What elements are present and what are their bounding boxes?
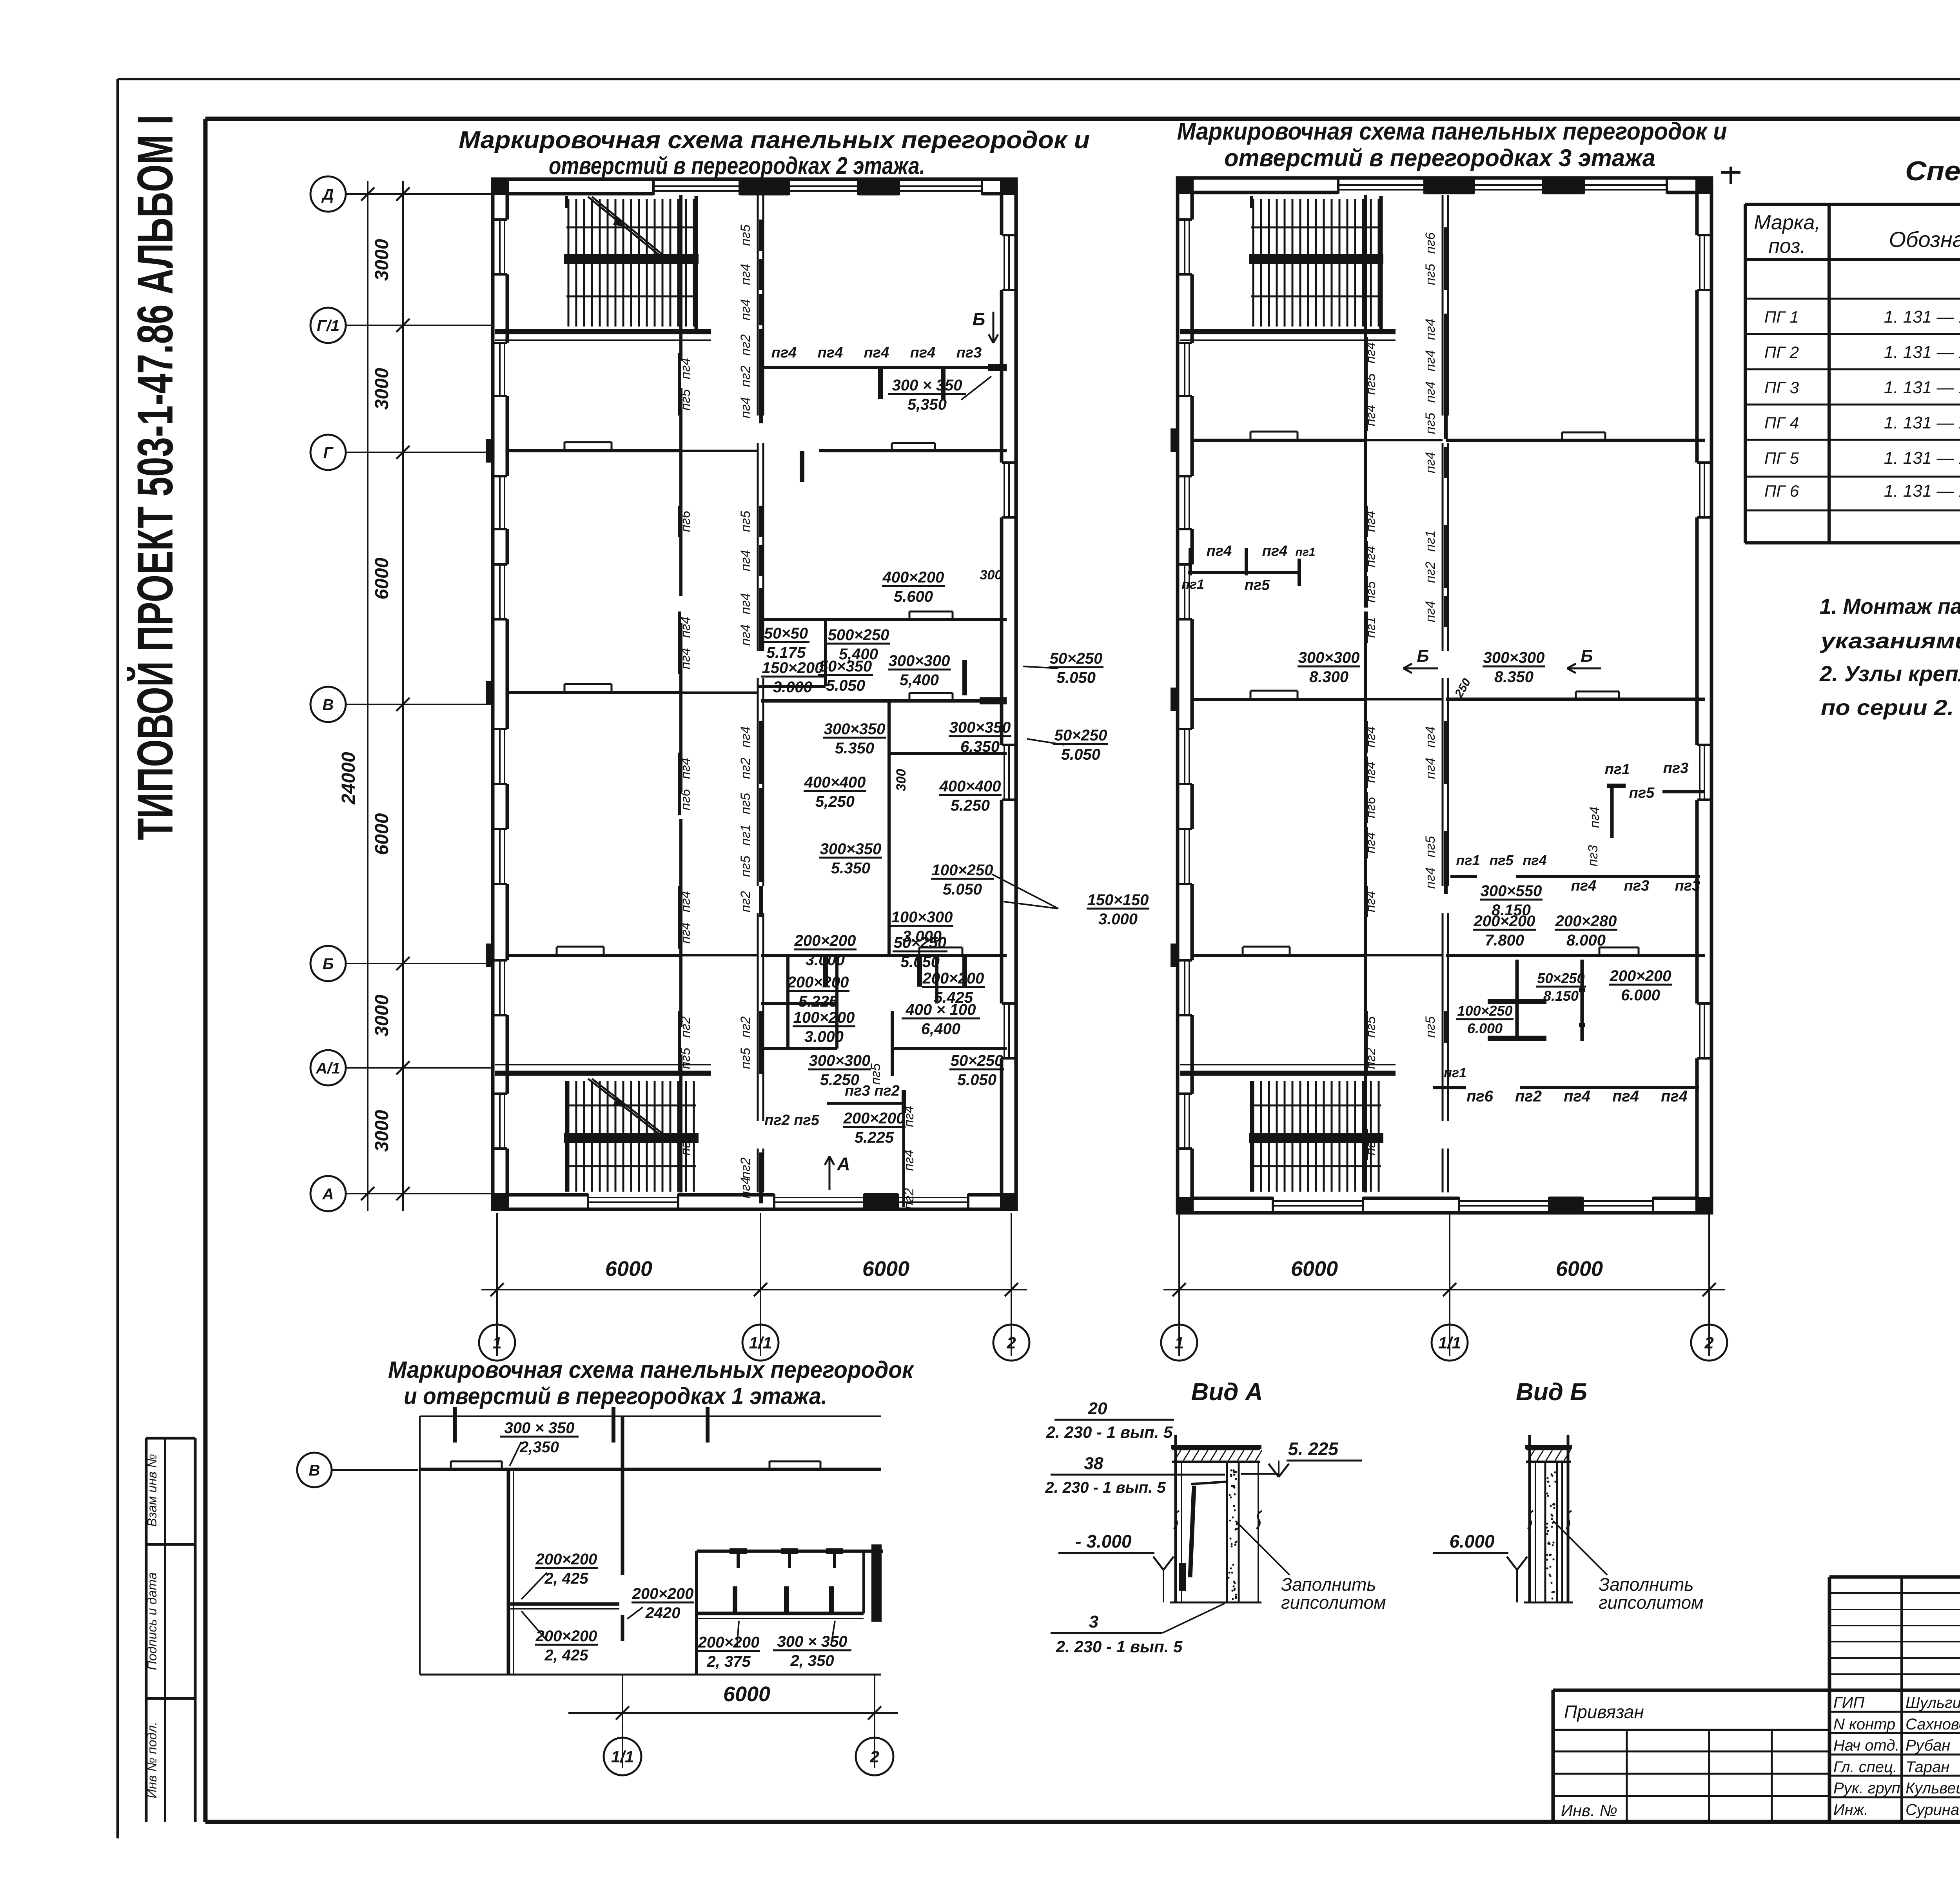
svg-text:пг2: пг2 xyxy=(738,758,753,779)
svg-text:ПГ 6: ПГ 6 xyxy=(1764,482,1799,500)
svg-text:Инв. №: Инв. № xyxy=(1561,1801,1617,1820)
svg-text:6000: 6000 xyxy=(862,1257,909,1281)
svg-text:гипсолитом: гипсолитом xyxy=(1281,1592,1386,1613)
svg-text:2: 2 xyxy=(1006,1334,1016,1352)
svg-text:Спецификация панелей перегор: Спецификация панелей перегородок xyxy=(1905,156,1960,186)
svg-text:пг4: пг4 xyxy=(738,264,753,285)
svg-text:8.150: 8.150 xyxy=(1543,988,1579,1004)
svg-text:5.050: 5.050 xyxy=(1056,669,1096,686)
svg-text:пг4: пг4 xyxy=(738,1177,753,1198)
svg-text:100×250: 100×250 xyxy=(932,862,993,879)
svg-text:1. 131 — 15 вып.2: 1. 131 — 15 вып.2 xyxy=(1884,307,1960,327)
svg-text:Инж.: Инж. xyxy=(1833,1801,1868,1818)
svg-text:2, 350: 2, 350 xyxy=(790,1652,834,1669)
svg-text:А/1: А/1 xyxy=(316,1060,340,1077)
svg-text:300×550: 300×550 xyxy=(1481,882,1542,900)
svg-text:пг4: пг4 xyxy=(1363,762,1378,783)
svg-text:300×300: 300×300 xyxy=(1483,649,1545,666)
svg-text:Подпись и дата: Подпись и дата xyxy=(145,1572,159,1670)
svg-text:6000: 6000 xyxy=(372,557,392,599)
svg-text:100×250: 100×250 xyxy=(1457,1003,1512,1019)
svg-text:пг3: пг3 xyxy=(1586,845,1601,866)
svg-text:пг5: пг5 xyxy=(1363,1016,1378,1038)
svg-text:5.050: 5.050 xyxy=(943,881,982,898)
svg-text:пг4: пг4 xyxy=(1423,350,1438,371)
svg-text:50×350: 50×350 xyxy=(819,658,872,675)
svg-text:пг1: пг1 xyxy=(1456,852,1480,868)
svg-text:50×250: 50×250 xyxy=(1050,650,1103,667)
svg-text:Г: Г xyxy=(323,444,334,461)
svg-text:400×400: 400×400 xyxy=(804,774,866,791)
svg-text:3000: 3000 xyxy=(372,994,392,1036)
svg-text:пг2: пг2 xyxy=(738,1158,753,1179)
svg-text:6000: 6000 xyxy=(605,1257,652,1281)
svg-text:6000: 6000 xyxy=(1291,1257,1338,1281)
svg-text:пг6: пг6 xyxy=(1423,232,1438,254)
svg-text:пг3: пг3 xyxy=(1624,878,1650,894)
svg-text:пг4: пг4 xyxy=(738,550,753,571)
svg-text:2,350: 2,350 xyxy=(519,1439,559,1456)
svg-text:5.600: 5.600 xyxy=(894,588,933,605)
svg-text:ТИПОВОЙ ПРОЕКТ 503-1-47.86 АЛЬ: ТИПОВОЙ ПРОЕКТ 503-1-47.86 АЛЬБОМ I xyxy=(127,115,183,840)
svg-text:пг4: пг4 xyxy=(1423,452,1438,473)
svg-text:3000: 3000 xyxy=(372,1110,392,1152)
svg-text:1/1: 1/1 xyxy=(1438,1334,1461,1352)
svg-text:1. 131 — 15 вып.2: 1. 131 — 15 вып.2 xyxy=(1884,481,1960,501)
svg-text:300: 300 xyxy=(894,769,909,791)
svg-text:Сурина.: Сурина. xyxy=(1906,1801,1960,1818)
svg-text:200×200: 200×200 xyxy=(535,1551,597,1568)
svg-text:300×300: 300×300 xyxy=(1298,649,1360,666)
svg-text:пг3: пг3 xyxy=(956,345,982,361)
svg-text:Привязан: Привязан xyxy=(1564,1702,1644,1722)
svg-text:пг5: пг5 xyxy=(1423,413,1438,434)
svg-text:300 × 350: 300 × 350 xyxy=(892,377,962,394)
svg-text:8.350: 8.350 xyxy=(1494,668,1534,686)
svg-text:100×200: 100×200 xyxy=(793,1009,855,1026)
svg-text:200×280: 200×280 xyxy=(1555,913,1617,930)
svg-text:Сахновская: Сахновская xyxy=(1906,1716,1960,1733)
svg-text:пг4: пг4 xyxy=(738,624,753,646)
svg-text:пг4: пг4 xyxy=(678,617,693,638)
svg-text:5.250: 5.250 xyxy=(951,797,990,814)
svg-text:пг4: пг4 xyxy=(678,922,693,944)
svg-text:300 × 350: 300 × 350 xyxy=(777,1633,847,1650)
svg-text:А: А xyxy=(837,1154,850,1174)
svg-text:Б: Б xyxy=(1417,646,1429,666)
svg-text:1. 131 — 15 вып.2: 1. 131 — 15 вып.2 xyxy=(1884,343,1960,362)
svg-text:пг4: пг4 xyxy=(1262,543,1288,559)
svg-text:1/1: 1/1 xyxy=(611,1747,634,1766)
svg-text:пг5: пг5 xyxy=(1245,577,1270,593)
svg-text:пг6: пг6 xyxy=(678,789,693,810)
svg-text:пг4: пг4 xyxy=(1423,867,1438,889)
svg-text:5.225: 5.225 xyxy=(855,1129,894,1146)
svg-text:пг3 пг2: пг3 пг2 xyxy=(845,1083,900,1099)
svg-text:Гл. спец.: Гл. спец. xyxy=(1833,1758,1897,1776)
svg-text:2. 230 - 1 вып. 5: 2. 230 - 1 вып. 5 xyxy=(1056,1637,1183,1656)
svg-text:5.050: 5.050 xyxy=(826,677,865,694)
svg-text:200×200: 200×200 xyxy=(787,974,849,991)
svg-text:пг4: пг4 xyxy=(1363,546,1378,567)
svg-text:пг3: пг3 xyxy=(1363,1134,1378,1155)
svg-text:3000: 3000 xyxy=(372,239,392,281)
svg-text:пг4: пг4 xyxy=(1363,891,1378,912)
svg-text:5.225: 5.225 xyxy=(799,993,838,1010)
svg-text:пг3: пг3 xyxy=(1663,760,1689,777)
svg-text:1/1: 1/1 xyxy=(749,1334,772,1352)
svg-text:пг5: пг5 xyxy=(738,511,753,532)
svg-text:Б: Б xyxy=(973,309,985,329)
svg-text:Обозначение: Обозначение xyxy=(1889,227,1960,252)
svg-text:300×300: 300×300 xyxy=(809,1052,871,1069)
svg-text:1. 131 — 15 вып.2: 1. 131 — 15 вып.2 xyxy=(1884,448,1960,468)
svg-text:8.000: 8.000 xyxy=(1566,932,1606,949)
svg-text:3.000: 3.000 xyxy=(773,679,812,696)
svg-text:ПГ 2: ПГ 2 xyxy=(1764,343,1799,361)
svg-text:5.350: 5.350 xyxy=(831,860,870,877)
svg-text:5. 225: 5. 225 xyxy=(1288,1439,1339,1459)
svg-text:пг4: пг4 xyxy=(1207,543,1232,559)
svg-text:Марка,: Марка, xyxy=(1754,211,1820,234)
svg-text:пг4: пг4 xyxy=(1661,1088,1688,1105)
svg-text:1. 131 — 15 вып.2: 1. 131 — 15 вып.2 xyxy=(1884,378,1960,397)
svg-text:пг5: пг5 xyxy=(1423,264,1438,285)
svg-text:пг5: пг5 xyxy=(1423,1016,1438,1038)
svg-text:300×350: 300×350 xyxy=(949,719,1011,736)
svg-text:пг4: пг4 xyxy=(678,648,693,669)
svg-text:50×50: 50×50 xyxy=(764,625,808,642)
svg-text:пг2: пг2 xyxy=(902,1188,916,1209)
svg-text:3.000: 3.000 xyxy=(1098,911,1138,928)
svg-text:пг4: пг4 xyxy=(771,345,797,361)
svg-text:пг2: пг2 xyxy=(1515,1088,1542,1105)
svg-text:200×200: 200×200 xyxy=(698,1634,760,1651)
svg-text:Рубан: Рубан xyxy=(1906,1737,1950,1754)
svg-text:2, 425: 2, 425 xyxy=(544,1570,588,1587)
svg-text:2420: 2420 xyxy=(645,1604,681,1622)
svg-text:пг5: пг5 xyxy=(1423,836,1438,857)
svg-text:8.300: 8.300 xyxy=(1309,668,1348,686)
svg-text:ПГ 4: ПГ 4 xyxy=(1764,414,1799,432)
svg-text:пг4: пг4 xyxy=(1612,1088,1639,1105)
svg-text:3.000: 3.000 xyxy=(806,951,845,969)
svg-text:300×350: 300×350 xyxy=(824,720,886,738)
svg-text:пг1: пг1 xyxy=(1181,577,1204,592)
svg-text:5.050: 5.050 xyxy=(900,953,940,971)
svg-text:пг4: пг4 xyxy=(1363,342,1378,363)
svg-text:Инв № подл.: Инв № подл. xyxy=(145,1722,159,1798)
svg-text:пг4: пг4 xyxy=(1363,405,1378,426)
svg-text:6000: 6000 xyxy=(723,1682,770,1706)
svg-text:и отверстий в перегородках: и отверстий в перегородках 1 этажа. xyxy=(404,1383,827,1409)
svg-text:пг4: пг4 xyxy=(902,1106,916,1127)
svg-text:поз.: поз. xyxy=(1768,235,1806,258)
svg-text:пг4: пг4 xyxy=(1423,758,1438,779)
svg-text:300 × 350: 300 × 350 xyxy=(504,1419,574,1437)
svg-text:пг4: пг4 xyxy=(864,345,889,361)
svg-text:2: 2 xyxy=(1704,1334,1713,1352)
svg-text:Маркировочная схема панельны: Маркировочная схема панельных перегородо… xyxy=(459,127,1090,154)
svg-text:пг4: пг4 xyxy=(738,397,753,418)
svg-text:200×200: 200×200 xyxy=(843,1110,905,1127)
svg-text:пг2 пг5: пг2 пг5 xyxy=(764,1112,820,1129)
svg-text:150×200: 150×200 xyxy=(762,659,824,677)
svg-text:отверстий в перегородках 2: отверстий в перегородках 2 этажа. xyxy=(549,152,925,180)
svg-text:6.000: 6.000 xyxy=(1621,987,1660,1004)
svg-text:Маркировочная схема панель: Маркировочная схема панельных перегородо… xyxy=(388,1357,914,1383)
svg-text:пг5: пг5 xyxy=(868,1063,883,1085)
svg-text:пг4: пг4 xyxy=(1423,381,1438,403)
svg-text:5.350: 5.350 xyxy=(835,740,874,757)
svg-text:пг4: пг4 xyxy=(1571,878,1597,894)
svg-text:пг6: пг6 xyxy=(1466,1088,1494,1105)
svg-text:пг6: пг6 xyxy=(678,511,693,532)
svg-text:100×300: 100×300 xyxy=(891,909,953,926)
svg-text:300×300: 300×300 xyxy=(889,652,950,670)
svg-text:2. Узлы крепления перегородо: 2. Узлы крепления перегородок к конструк… xyxy=(1819,661,1960,686)
svg-text:50×250: 50×250 xyxy=(894,934,947,951)
svg-text:6.000: 6.000 xyxy=(1449,1531,1495,1551)
svg-text:ПГ 5: ПГ 5 xyxy=(1764,449,1799,467)
svg-text:2. 230 - 1 вып. 5: 2. 230 - 1 вып. 5 xyxy=(1046,1423,1173,1441)
svg-text:пг4: пг4 xyxy=(1523,852,1546,868)
svg-text:200×200: 200×200 xyxy=(535,1628,597,1645)
svg-text:пг5: пг5 xyxy=(738,856,753,877)
svg-text:2, 375: 2, 375 xyxy=(706,1653,751,1670)
svg-text:пг2: пг2 xyxy=(738,366,753,387)
svg-text:200×200: 200×200 xyxy=(794,932,856,949)
svg-text:24000: 24000 xyxy=(338,752,359,805)
svg-text:5,350: 5,350 xyxy=(907,396,947,413)
svg-text:2. 230 - 1 вып. 5: 2. 230 - 1 вып. 5 xyxy=(1045,1479,1166,1496)
svg-text:2, 425: 2, 425 xyxy=(544,1647,588,1664)
svg-text:6.000: 6.000 xyxy=(1467,1020,1503,1036)
svg-text:А: А xyxy=(322,1185,334,1203)
svg-text:3000: 3000 xyxy=(372,368,392,410)
svg-text:5,400: 5,400 xyxy=(900,671,939,689)
svg-text:150×150: 150×150 xyxy=(1087,891,1149,909)
svg-text:пг6: пг6 xyxy=(1363,797,1378,818)
svg-text:Вид А: Вид А xyxy=(1191,1379,1263,1406)
svg-text:пг4: пг4 xyxy=(1363,832,1378,853)
svg-text:пг5: пг5 xyxy=(738,225,753,246)
svg-text:пг2: пг2 xyxy=(1423,562,1438,583)
svg-text:ПГ 1: ПГ 1 xyxy=(1764,308,1799,326)
svg-text:6000: 6000 xyxy=(372,813,392,855)
svg-text:Д: Д xyxy=(321,186,334,203)
svg-text:Заполнить: Заполнить xyxy=(1599,1574,1694,1595)
svg-text:пг2: пг2 xyxy=(1363,1048,1378,1069)
svg-text:Г/1: Г/1 xyxy=(317,317,339,334)
svg-text:пг4: пг4 xyxy=(1423,319,1438,340)
svg-text:пг1: пг1 xyxy=(1444,1065,1466,1080)
svg-text:Б: Б xyxy=(1581,646,1593,666)
svg-text:200×200: 200×200 xyxy=(1474,913,1535,930)
svg-text:пг3: пг3 xyxy=(1675,878,1700,894)
svg-text:200×200: 200×200 xyxy=(922,970,984,987)
svg-text:пг4: пг4 xyxy=(678,358,693,379)
svg-text:Нач отд.: Нач отд. xyxy=(1833,1737,1900,1754)
svg-text:пг5: пг5 xyxy=(1363,581,1378,602)
svg-text:отверстий в перегородках 3: отверстий в перегородках 3 этажа xyxy=(1224,145,1655,172)
svg-text:400×400: 400×400 xyxy=(939,778,1001,795)
svg-text:указаниями серии 1. 131 -: указаниями серии 1. 131 - 15 вып. 2. xyxy=(1820,628,1960,653)
svg-text:пг2: пг2 xyxy=(678,1016,693,1038)
svg-text:3: 3 xyxy=(1089,1612,1098,1631)
svg-text:1: 1 xyxy=(1174,1334,1183,1352)
svg-text:пг5: пг5 xyxy=(678,389,693,410)
svg-text:В: В xyxy=(323,696,334,713)
svg-text:пг4: пг4 xyxy=(738,593,753,614)
svg-text:5.050: 5.050 xyxy=(957,1071,996,1089)
svg-text:пг2: пг2 xyxy=(738,1016,753,1038)
svg-text:500×250: 500×250 xyxy=(828,626,889,644)
svg-text:Маркировочная схема панельны: Маркировочная схема панельных перегородо… xyxy=(1177,118,1727,145)
svg-text:1. Монтаж панелей производ: 1. Монтаж панелей производить в соответс… xyxy=(1820,594,1960,619)
svg-text:пг4: пг4 xyxy=(738,299,753,320)
svg-text:пг1: пг1 xyxy=(738,824,753,846)
svg-text:пг4: пг4 xyxy=(818,345,843,361)
svg-text:200×200: 200×200 xyxy=(1610,967,1671,985)
svg-text:ГИП: ГИП xyxy=(1833,1694,1865,1711)
svg-text:пг4: пг4 xyxy=(1363,511,1378,532)
svg-text:Взам инв №: Взам инв № xyxy=(145,1454,159,1527)
svg-text:Заполнить: Заполнить xyxy=(1281,1574,1376,1595)
svg-text:3.000: 3.000 xyxy=(804,1028,844,1045)
svg-text:пг5: пг5 xyxy=(738,793,753,814)
svg-text:Таран: Таран xyxy=(1906,1758,1949,1776)
svg-text:50×250: 50×250 xyxy=(951,1052,1004,1069)
svg-text:5.175: 5.175 xyxy=(766,644,806,661)
svg-text:5,250: 5,250 xyxy=(815,793,855,810)
svg-text:1: 1 xyxy=(492,1334,501,1352)
svg-text:пг5: пг5 xyxy=(738,1048,753,1069)
svg-text:6,350: 6,350 xyxy=(960,738,1000,755)
svg-text:пг1: пг1 xyxy=(1605,761,1630,778)
svg-text:пг5: пг5 xyxy=(1629,785,1655,801)
svg-text:50×250: 50×250 xyxy=(1054,727,1107,744)
svg-text:Кульвец: Кульвец xyxy=(1906,1780,1960,1797)
svg-text:Шульгин: Шульгин xyxy=(1906,1694,1960,1711)
svg-text:В: В xyxy=(309,1462,320,1479)
svg-text:Б: Б xyxy=(323,955,334,973)
svg-text:200×200: 200×200 xyxy=(632,1585,694,1602)
svg-text:6,400: 6,400 xyxy=(921,1020,960,1038)
svg-text:400×200: 400×200 xyxy=(882,569,944,586)
svg-text:гипсолитом: гипсолитом xyxy=(1599,1592,1704,1613)
svg-text:пг4: пг4 xyxy=(678,891,693,912)
svg-text:пг1: пг1 xyxy=(1423,530,1438,552)
svg-text:пг5: пг5 xyxy=(678,1048,693,1069)
svg-text:Вид Б: Вид Б xyxy=(1516,1379,1587,1406)
svg-text:пг4: пг4 xyxy=(1587,807,1602,828)
svg-text:6000: 6000 xyxy=(1556,1257,1603,1281)
svg-text:N контр: N контр xyxy=(1833,1716,1895,1733)
svg-text:20: 20 xyxy=(1088,1399,1107,1418)
svg-text:пг4: пг4 xyxy=(678,758,693,779)
svg-text:пг1: пг1 xyxy=(1295,546,1315,559)
svg-text:пг5: пг5 xyxy=(1363,374,1378,395)
svg-text:2: 2 xyxy=(869,1747,879,1766)
svg-text:пг4: пг4 xyxy=(1564,1088,1590,1105)
svg-text:пг4: пг4 xyxy=(910,345,936,361)
svg-text:по серии 2. 230 - 1 вып.: по серии 2. 230 - 1 вып. 5. xyxy=(1821,695,1960,720)
svg-text:пг2: пг2 xyxy=(738,891,753,912)
svg-text:пг4: пг4 xyxy=(738,726,753,748)
svg-text:400 × 100: 400 × 100 xyxy=(905,1001,976,1018)
svg-text:ПГ 3: ПГ 3 xyxy=(1764,378,1799,397)
svg-text:пг5: пг5 xyxy=(1489,852,1514,868)
svg-text:300: 300 xyxy=(980,568,1002,582)
svg-text:пг3: пг3 xyxy=(678,1134,693,1155)
svg-text:7.800: 7.800 xyxy=(1485,932,1524,949)
svg-text:пг4: пг4 xyxy=(902,1150,916,1171)
svg-text:пг2: пг2 xyxy=(738,334,753,356)
svg-text:пг1: пг1 xyxy=(1363,617,1378,638)
svg-text:50×250: 50×250 xyxy=(1537,970,1584,986)
svg-text:пг4: пг4 xyxy=(1363,726,1378,748)
svg-text:5.050: 5.050 xyxy=(1061,746,1100,763)
svg-text:- 3.000: - 3.000 xyxy=(1075,1531,1132,1551)
svg-text:1. 131 — 15 вып.2: 1. 131 — 15 вып.2 xyxy=(1884,413,1960,432)
svg-text:38: 38 xyxy=(1084,1454,1103,1473)
svg-text:Рук. груп.: Рук. груп. xyxy=(1833,1780,1905,1797)
svg-text:300×350: 300×350 xyxy=(820,840,882,858)
svg-text:пг4: пг4 xyxy=(1423,726,1438,748)
svg-text:пг4: пг4 xyxy=(1423,601,1438,622)
